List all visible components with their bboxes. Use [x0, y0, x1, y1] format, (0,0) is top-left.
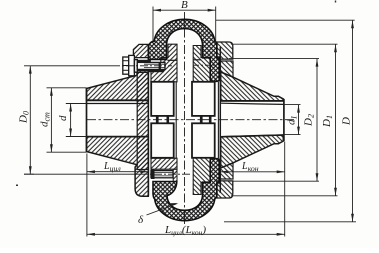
bolt axis top — [24, 65, 112, 67]
center H-bar 1 — [156, 116, 159, 123]
dim D line — [352, 20, 354, 222]
svg-text:δ: δ — [138, 214, 144, 226]
rubber shell upper dome and beads — [148, 19, 219, 81]
svg-text:B: B — [181, 0, 188, 11]
right hub bore top line — [221, 103, 284, 104]
bolt shank — [137, 62, 165, 69]
svg-text:d: d — [57, 115, 69, 121]
upper right flange block — [219, 61, 233, 77]
upper right clamping ring — [193, 46, 210, 83]
dim D1 extensions — [231, 43, 338, 45]
dim D extensions — [216, 19, 355, 21]
left flange face line — [147, 45, 149, 196]
boss secondary line left — [175, 82, 177, 158]
right hub upper wall — [221, 72, 284, 101]
dim B right extension — [215, 7, 217, 43]
delta leader — [147, 204, 177, 215]
dim B arrows — [153, 9, 161, 12]
lower right clamping ring — [193, 158, 210, 195]
right hub bore bottom line — [221, 135, 284, 137]
dim B line — [153, 9, 216, 11]
left hub bore bottom line — [87, 136, 149, 138]
center H-bar 4 — [209, 116, 212, 123]
dim D2 line — [316, 59, 318, 182]
lower left ring bit — [173, 169, 177, 181]
dim Lcyl line — [87, 171, 148, 173]
dim D1 line — [335, 44, 337, 196]
boss secondary line right — [217, 82, 219, 158]
bolt washer — [134, 60, 137, 73]
center axis horizontal — [87, 119, 296, 121]
right hub end face — [283, 99, 285, 141]
left hub bore top line — [87, 103, 149, 105]
dim D0 bottom extension — [24, 173, 34, 175]
left hub upper wall — [87, 72, 149, 100]
svg-text:D: D — [341, 117, 353, 126]
ring joint line left — [168, 59, 178, 61]
upper left clamping ring — [151, 44, 177, 82]
dim Ltotal line — [87, 233, 285, 235]
right boss lower rect — [192, 123, 215, 158]
dim D2 extensions — [229, 58, 319, 60]
bolt head — [123, 55, 135, 75]
left boss lower rect — [151, 123, 174, 158]
right hub keyway line — [221, 100, 284, 102]
left flange disc — [137, 71, 148, 170]
left hub keyway line — [87, 99, 149, 101]
dim d1 extensions — [283, 104, 300, 106]
dim d line — [70, 104, 72, 137]
right flange face line — [219, 47, 221, 193]
dim B left extension — [152, 7, 154, 42]
dim Lcyl extension left — [86, 154, 88, 237]
under-shank dark strip — [148, 70, 164, 73]
stray dot — [16, 185, 18, 187]
center axis vertical — [184, 12, 186, 226]
left hub end face — [86, 88, 88, 152]
lower right flange block — [219, 163, 233, 179]
dim d extensions — [66, 103, 87, 105]
left hub lower wall and flange — [87, 137, 149, 197]
dim dst extensions — [47, 87, 87, 89]
dim Lkon extension right — [284, 142, 286, 237]
bolt axis top right segment — [193, 64, 215, 66]
right boss upper rect — [192, 82, 215, 116]
dim D0 line — [29, 66, 31, 175]
rubber shell lower dome and beads — [153, 159, 219, 221]
dim d1 line — [298, 105, 300, 135]
ring joint line right — [193, 59, 201, 61]
dim dst line — [50, 88, 52, 152]
right hub lower wall — [221, 135, 284, 168]
stray tick — [335, 1, 336, 3]
upper right pressure plate — [217, 42, 233, 59]
dim Lkon line — [220, 171, 284, 173]
center H-bar 3 — [200, 116, 203, 123]
lower left clamp band — [151, 158, 177, 169]
bolt axis bottom — [24, 173, 140, 175]
upper left pressure plate — [133, 44, 148, 57]
left boss upper rect — [151, 82, 174, 116]
center H-bar 2 — [167, 116, 170, 123]
lower fastener — [151, 169, 173, 179]
lower right pressure plate — [217, 181, 233, 198]
clamp seat dark strip — [138, 60, 151, 62]
